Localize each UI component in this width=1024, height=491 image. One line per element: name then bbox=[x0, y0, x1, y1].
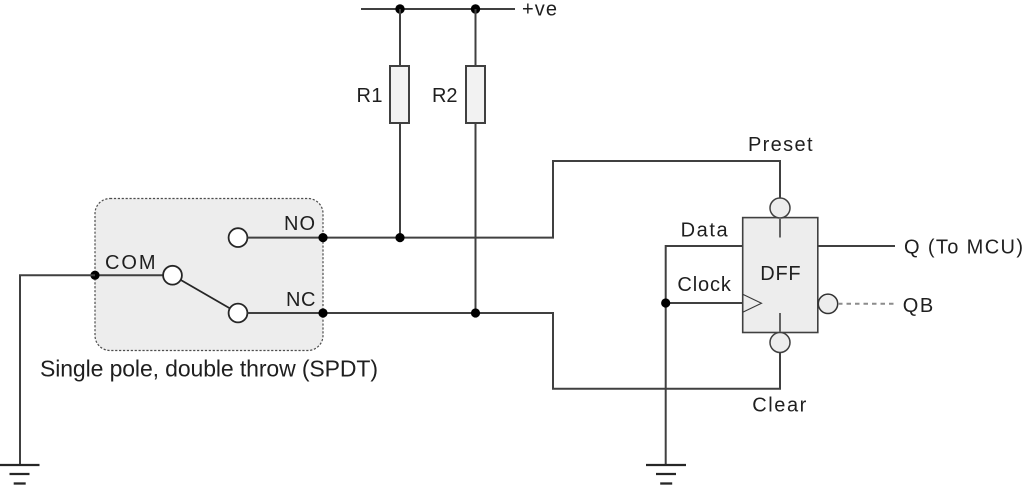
label Data bbox=[681, 219, 729, 241]
terminal COM contact bbox=[163, 266, 182, 285]
node COM junction bbox=[90, 271, 99, 280]
wire top +ve rail bbox=[361, 8, 515, 10]
wire Data net bbox=[666, 246, 743, 465]
svg-text:Q (To MCU): Q (To MCU) bbox=[904, 237, 1023, 259]
svg-text:R1: R1 bbox=[357, 85, 383, 107]
terminal NC contact bbox=[229, 304, 248, 323]
wire NC net bbox=[247, 313, 780, 389]
label Single pole, double throw (SPDT) bbox=[40, 356, 378, 382]
svg-text:DFF: DFF bbox=[760, 263, 800, 285]
label QB bbox=[903, 295, 933, 317]
node Clock junction bbox=[661, 298, 670, 307]
wire COM lead bbox=[95, 274, 163, 276]
resistor R1 bbox=[390, 66, 409, 123]
wire R1 top lead bbox=[399, 9, 401, 66]
wire QB dashed bbox=[838, 303, 895, 305]
pin Preset stub inside bbox=[779, 219, 781, 238]
label NC bbox=[286, 289, 315, 311]
svg-text:COM: COM bbox=[105, 252, 156, 274]
label Clock bbox=[677, 274, 732, 296]
svg-text:Preset: Preset bbox=[748, 134, 813, 156]
label R2 bbox=[432, 85, 458, 107]
switch lever arm bbox=[181, 280, 230, 309]
switch SW1 SPDT body bbox=[95, 199, 323, 351]
node NO at switch edge bbox=[318, 233, 327, 242]
ground GND2 bbox=[646, 465, 686, 484]
svg-text:Data: Data bbox=[681, 219, 729, 241]
label NO bbox=[284, 213, 315, 235]
wire NO net bbox=[247, 161, 780, 238]
wire R1 bottom lead bbox=[399, 123, 401, 238]
svg-text:Clear: Clear bbox=[752, 395, 806, 417]
svg-text:Clock: Clock bbox=[677, 274, 732, 296]
node junction on +ve rail at R2 bbox=[471, 4, 480, 13]
node NC at R2 bbox=[471, 308, 480, 317]
label DFF bbox=[760, 263, 800, 285]
wire R2 bottom lead bbox=[475, 123, 477, 313]
pin Clock edge triangle bbox=[743, 294, 762, 312]
resistor R2 bbox=[466, 66, 485, 123]
pin Clear bubble bbox=[770, 333, 790, 353]
wire Q output bbox=[818, 245, 895, 247]
node junction on +ve rail at R1 bbox=[395, 4, 404, 13]
pin Clear stub inside bbox=[779, 313, 781, 332]
terminal NO contact bbox=[229, 228, 248, 247]
label COM bbox=[105, 252, 156, 274]
label Clear bbox=[752, 395, 806, 417]
wire Clock stub bbox=[666, 302, 743, 304]
node NC at switch edge bbox=[318, 308, 327, 317]
wire R2 top lead bbox=[475, 9, 477, 66]
pin QB bubble bbox=[818, 294, 837, 313]
pin Preset bubble bbox=[770, 198, 790, 218]
flip-flop U1 DFF body bbox=[743, 218, 818, 333]
svg-text:NO: NO bbox=[284, 213, 315, 235]
svg-text:NC: NC bbox=[286, 289, 315, 311]
svg-text:R2: R2 bbox=[432, 85, 458, 107]
wire from COM to left bbox=[20, 275, 95, 465]
label +ve bbox=[522, 0, 557, 21]
ground GND1 bbox=[0, 465, 40, 484]
label Preset bbox=[748, 134, 813, 156]
label R1 bbox=[357, 85, 383, 107]
svg-text:+ve: +ve bbox=[522, 0, 557, 21]
node NO at R1 bbox=[395, 233, 404, 242]
label Q (To MCU) bbox=[904, 237, 1023, 259]
svg-text:QB: QB bbox=[903, 295, 933, 317]
svg-text:Single pole, double throw (SPD: Single pole, double throw (SPDT) bbox=[40, 356, 378, 382]
